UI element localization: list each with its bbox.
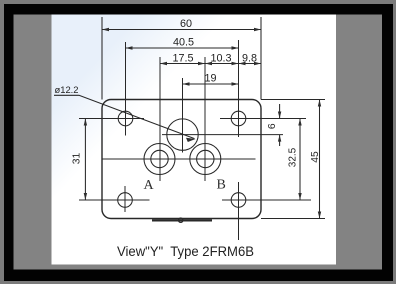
extension line plate top to right <box>261 99 325 101</box>
hole top-left <box>118 111 133 126</box>
leader line dia 12.2 <box>54 95 195 138</box>
center line vertical bottom-right hole <box>238 182 240 240</box>
hole top-right <box>231 111 246 126</box>
svg-text:40.5: 40.5 <box>173 37 194 49</box>
arrow 32.5 bottom <box>298 193 301 200</box>
svg-text:View"Y" Type 2FRM6B: View"Y" Type 2FRM6B <box>117 244 254 259</box>
svg-text:6: 6 <box>267 123 278 129</box>
center line vertical top-right hole <box>238 40 240 137</box>
port B inner <box>197 150 214 167</box>
thick slot bar at plate bottom <box>152 219 212 221</box>
svg-text:31: 31 <box>72 153 83 165</box>
arrow 6 bottom <box>278 135 281 142</box>
arrow 45 top <box>318 100 321 107</box>
svg-text:9.8: 9.8 <box>242 53 257 65</box>
svg-text:B: B <box>217 178 226 193</box>
center line vertical port A <box>159 57 161 181</box>
arrow 60 left <box>102 28 109 31</box>
svg-text:A: A <box>144 178 155 193</box>
extension line plate bottom to right <box>261 218 325 220</box>
center line vertical bottom-left hole <box>124 186 126 212</box>
dim line 17.5 10.3 9.8 <box>160 63 261 65</box>
svg-text:60: 60 <box>180 18 192 30</box>
dim line 6 lower tail <box>279 135 281 146</box>
svg-text:10.3: 10.3 <box>210 53 231 65</box>
svg-text:17.5: 17.5 <box>172 53 193 65</box>
arrow 19 left <box>183 82 190 85</box>
extension line 31 left top <box>79 118 102 120</box>
arrows at port B extension <box>198 62 205 65</box>
center line horizontal through top holes right segment <box>220 118 306 120</box>
hole bottom-right <box>231 193 246 208</box>
hole bottom-left <box>118 193 133 208</box>
arrow 32.5 top <box>298 119 301 126</box>
big hole dia 12.2 <box>167 119 198 150</box>
svg-text:45: 45 <box>310 151 321 163</box>
svg-text:ø12.2: ø12.2 <box>55 84 79 95</box>
dim line 6 upper tail <box>279 104 281 119</box>
arrow 31 bottom <box>84 193 87 200</box>
arrow 19 right <box>232 82 239 85</box>
center line horizontal through bottom-left hole <box>79 199 150 201</box>
dim line 45 <box>319 100 321 219</box>
center line horizontal through top holes left segment <box>79 118 144 120</box>
extension line plate left edge up <box>101 17 103 100</box>
port B outer <box>190 144 221 175</box>
dim line 19 <box>183 83 239 85</box>
white drawing paper <box>52 15 337 265</box>
arrow 40.5 left <box>126 46 133 49</box>
center line vertical big circle <box>182 78 184 153</box>
dim line 60 <box>102 29 261 31</box>
center line vertical port B <box>204 57 206 181</box>
plate outline <box>102 100 261 219</box>
center line vertical top-left hole <box>125 42 127 136</box>
arrow leader dia12.2 <box>186 138 196 142</box>
center line horizontal through ports A and B <box>102 158 256 160</box>
svg-text:19: 19 <box>204 73 216 85</box>
port A outer <box>144 144 175 175</box>
arrow 17.5 left <box>160 62 167 65</box>
arrow 60 right <box>254 28 261 31</box>
arrows at hole extension 10.3/9.8 <box>232 62 239 65</box>
arrow 31 top <box>84 119 87 126</box>
arrow 9.8 right <box>254 62 261 65</box>
locating notch circle <box>179 218 183 222</box>
dim line 31 <box>84 119 86 201</box>
dim line 32.5 <box>299 119 301 201</box>
port A inner <box>151 150 168 167</box>
arrow 40.5 right <box>232 46 239 49</box>
extension line plate right edge up <box>260 17 262 100</box>
center line horizontal through bottom-right hole <box>222 199 311 201</box>
arrow 6 top <box>278 112 281 119</box>
svg-text:32.5: 32.5 <box>288 147 299 167</box>
center line horizontal through big circle <box>162 134 283 136</box>
dim line 40.5 <box>126 47 239 49</box>
arrow 45 bottom <box>318 212 321 219</box>
